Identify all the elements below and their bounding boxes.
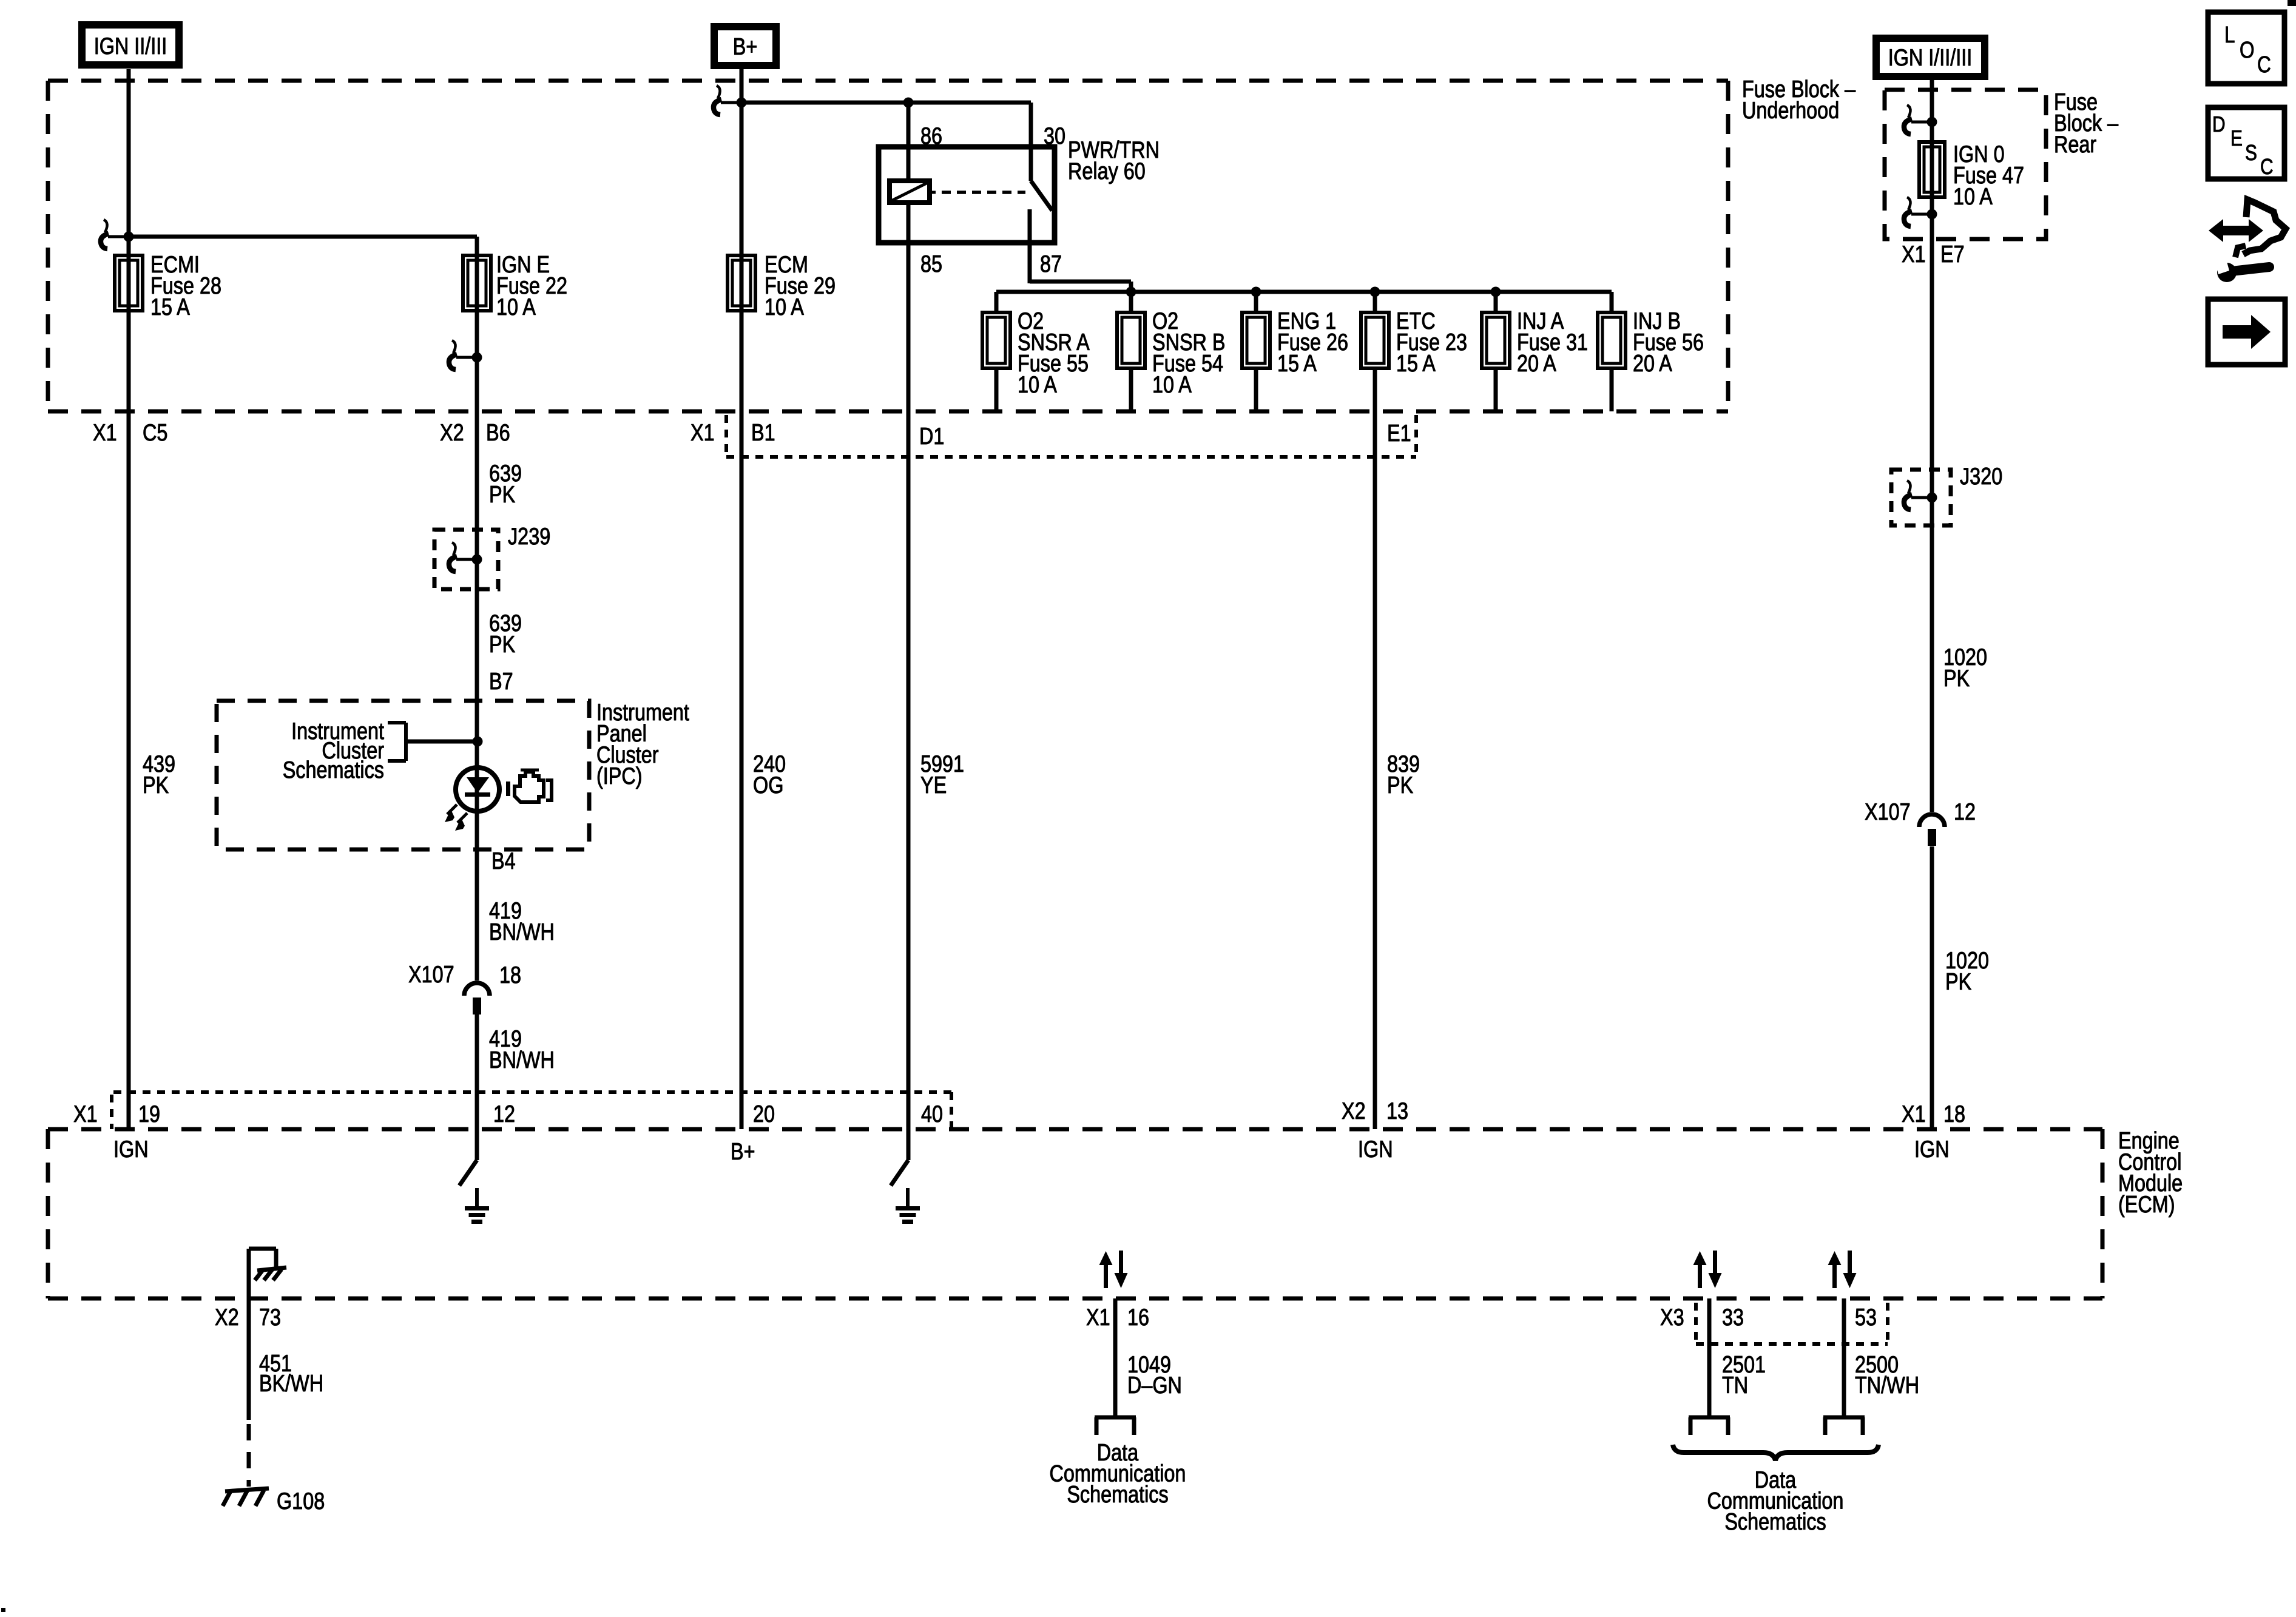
fuse ECMI Fuse 28 label [150, 252, 221, 320]
fuse feed bus from relay 87 [996, 290, 1612, 294]
label X107 18 [408, 962, 521, 988]
svg-text:C5: C5 [143, 420, 167, 446]
svg-text:X1: X1 [1902, 1101, 1926, 1127]
svg-text:PK: PK [143, 772, 169, 798]
label X107 12 right [1865, 799, 1976, 825]
svg-text:15 A: 15 A [150, 294, 190, 320]
fuse ETC [1361, 312, 1389, 368]
ECM pin 33 label [1722, 1305, 1744, 1331]
svg-text:(ECM): (ECM) [2118, 1192, 2175, 1218]
wire bus to O2 SNSR B fuse [1129, 292, 1133, 312]
svg-text:D1: D1 [919, 424, 944, 450]
off-page connector pin 16 [1095, 1417, 1136, 1435]
svg-text:30: 30 [1044, 123, 1065, 149]
wire O2 SNSR A fuse to border [994, 368, 999, 411]
svg-text:PK: PK [1943, 666, 1970, 692]
page mark bottom left [1, 1608, 5, 1612]
svg-text:86: 86 [920, 123, 942, 149]
wire link C5 to B6 horizontal [129, 235, 477, 239]
label G108 [277, 1488, 325, 1514]
ECM pin 53 data arrows [1828, 1251, 1857, 1288]
relay pin 86 label [920, 123, 942, 149]
connector cup junction below Fuse 22 [449, 340, 482, 370]
label X1 C5 at fuse block exit [93, 420, 167, 446]
power label box B+ [714, 27, 776, 66]
power label box IGN II/III [82, 25, 179, 65]
connector cup junction at B+ entry [714, 86, 747, 115]
svg-text:20: 20 [753, 1101, 775, 1127]
wire label 439 PK [143, 751, 175, 798]
svg-text:18: 18 [499, 962, 521, 988]
wire link B+ to relay pin 30 [741, 101, 1031, 105]
label X1 B1 at fuse block exit [690, 420, 775, 446]
svg-text:B7: B7 [489, 669, 513, 695]
wire bus to ETC fuse [1373, 292, 1377, 312]
svg-text:IGN: IGN [1914, 1136, 1950, 1163]
svg-text:Relay 60: Relay 60 [1068, 158, 1146, 184]
svg-text:C: C [2257, 52, 2271, 78]
ECM pin 40 ground [896, 1188, 920, 1224]
fuse ECM Fuse 29 label [765, 252, 836, 320]
icon service hand and wrench [2209, 200, 2286, 282]
svg-text:15 A: 15 A [1396, 351, 1436, 377]
svg-text:YE: YE [920, 772, 947, 798]
svg-text:12: 12 [493, 1101, 515, 1127]
label B7 pin [489, 669, 513, 695]
fuse block rear dashed box [1885, 90, 2046, 239]
relay pin 30 wire [1029, 103, 1033, 181]
ECM pin X2 73 label [215, 1305, 281, 1331]
svg-text:20 A: 20 A [1517, 351, 1556, 377]
ECM pin X1 18 label [1902, 1101, 1965, 1127]
svg-text:TN: TN [1722, 1372, 1748, 1399]
ECM pin 40 switch [891, 1129, 908, 1186]
ECM pin X2 13 label [1342, 1098, 1408, 1124]
svg-text:10 A: 10 A [496, 294, 536, 320]
wire 5991 YE from relay 85 to ECM pin 40 [907, 255, 911, 1129]
wire 1049 D-GN [1113, 1298, 1118, 1417]
svg-text:(IPC): (IPC) [596, 763, 643, 789]
fuse IGN 0 Fuse 47 [1919, 142, 1945, 197]
wire ENG 1 fuse to border [1254, 368, 1258, 411]
relay pin 85 wire [907, 203, 911, 255]
fuse block underhood border (dashed box) [48, 81, 1728, 411]
fuse INJ A label [1517, 308, 1588, 377]
label D1 at fuse block exit [919, 424, 944, 450]
svg-text:PK: PK [1945, 969, 1971, 995]
off-page connector pin 33 [1689, 1417, 1730, 1435]
svg-text:X2: X2 [440, 420, 464, 446]
wire INJ B fuse to border [1610, 368, 1614, 411]
instrument panel cluster label [596, 700, 689, 789]
junction dot at relay coil feed [903, 98, 914, 108]
svg-text:B6: B6 [486, 420, 510, 446]
wire label 639 PK lower [489, 610, 522, 658]
svg-text:16: 16 [1127, 1305, 1149, 1331]
svg-text:BN/WH: BN/WH [489, 919, 555, 945]
ECM pin 40 label [921, 1101, 943, 1127]
fuse O2 SNSR B [1117, 312, 1145, 368]
relay PWR/TRN Relay 60 box [879, 147, 1055, 243]
off-page connector pin 53 [1823, 1417, 1865, 1435]
wire 1020 PK from IGN I/II/III to ECM pin 18 [1930, 80, 1934, 1129]
svg-text:IGN: IGN [1358, 1136, 1393, 1163]
fuse IGN E Fuse 22 label [496, 252, 567, 320]
inline connector X107 pin 12 right [1919, 814, 1945, 846]
power label box IGN I/II/III [1876, 38, 1985, 76]
wire 439 PK vertical from IGN II/III to ECM pin 19 [127, 69, 131, 1129]
fuse INJ B [1598, 312, 1626, 368]
junction dot at INJ A tap [1491, 287, 1501, 297]
svg-text:B+: B+ [731, 1139, 755, 1165]
svg-text:X1: X1 [1086, 1305, 1110, 1331]
fuse ECM Fuse 29 [728, 255, 755, 311]
relay switch blade [1031, 181, 1052, 211]
svg-text:TN/WH: TN/WH [1855, 1372, 1919, 1399]
ECM pin 12 label [493, 1101, 515, 1127]
ECM pin 13 IGN label [1358, 1136, 1393, 1163]
fuse O2 SNSR A label [1018, 308, 1090, 398]
ECM connector X1 dotted notch [112, 1092, 951, 1129]
data communication schematics text left [1050, 1440, 1186, 1508]
svg-text:D–GN: D–GN [1127, 1372, 1182, 1399]
relay pin 85 label [920, 251, 942, 277]
svg-text:D: D [2212, 112, 2226, 137]
indicator LED circle [456, 768, 499, 811]
wire 2501 TN [1707, 1298, 1712, 1417]
svg-text:J239: J239 [508, 524, 550, 550]
icon box LOC [2208, 12, 2284, 84]
fuse O2 SNSR B label [1152, 308, 1226, 398]
svg-text:B+: B+ [733, 34, 758, 60]
svg-text:X2: X2 [215, 1305, 239, 1331]
wire label 639 PK upper [489, 461, 522, 508]
svg-text:85: 85 [920, 251, 942, 277]
ECM pin 20 B+ label [731, 1139, 755, 1165]
wire B+ vertical to ECM pin 20 [740, 69, 744, 1129]
fuse ENG 1 label [1277, 308, 1348, 377]
wire bus to INJ A fuse [1494, 292, 1498, 312]
svg-text:X1: X1 [690, 420, 715, 446]
svg-text:33: 33 [1722, 1305, 1744, 1331]
ECM internal chassis ground wire [249, 1249, 276, 1298]
wire label 1020 PK upper [1943, 644, 1987, 692]
ECM pin 53 label [1855, 1305, 1877, 1331]
svg-text:B1: B1 [751, 420, 775, 446]
check engine icon [506, 770, 552, 802]
label J320 [1960, 464, 2002, 490]
svg-text:PK: PK [1387, 772, 1413, 798]
svg-text:C: C [2260, 154, 2274, 179]
svg-text:E7: E7 [1940, 241, 1965, 268]
ECM pin 18 IGN label [1914, 1136, 1950, 1163]
svg-text:X3: X3 [1660, 1305, 1684, 1331]
ECM pin 16 data arrows [1099, 1251, 1128, 1288]
svg-text:20 A: 20 A [1633, 351, 1672, 377]
icon box arrow [2208, 299, 2285, 365]
instrument cluster schematics bracket [388, 723, 406, 761]
svg-text:E1: E1 [1387, 420, 1411, 447]
svg-text:BK/WH: BK/WH [259, 1371, 323, 1397]
LED light arrows [445, 805, 467, 831]
svg-text:10 A: 10 A [765, 294, 804, 320]
svg-text:X107: X107 [1865, 799, 1911, 825]
svg-text:10 A: 10 A [1953, 184, 1993, 210]
wire relay 87 to fuse bus [1030, 282, 1131, 292]
ECM pin 19 IGN label [113, 1136, 149, 1163]
label J239 [508, 524, 550, 550]
ECM connector X3 dotted box [1696, 1303, 1888, 1344]
svg-text:B4: B4 [491, 848, 516, 874]
svg-text:15 A: 15 A [1277, 351, 1317, 377]
svg-text:E: E [2230, 126, 2243, 150]
svg-text:L: L [2224, 22, 2235, 48]
svg-text:87: 87 [1040, 251, 1062, 277]
fuse INJ B label [1633, 308, 1704, 377]
fuse IGN E Fuse 22 [463, 255, 491, 311]
junction dot at IPC wire [473, 737, 483, 747]
svg-text:PK: PK [489, 482, 515, 508]
svg-text:X1: X1 [1902, 241, 1926, 268]
fuse O2 SNSR A [982, 312, 1010, 368]
wire 839 PK from ETC fuse to ECM pin 13 [1373, 368, 1377, 1129]
svg-text:Schematics: Schematics [283, 757, 384, 783]
svg-text:13: 13 [1386, 1098, 1408, 1124]
connector cup junction J239 [449, 542, 482, 572]
connector cup junction J320 [1904, 481, 1937, 510]
svg-text:73: 73 [259, 1305, 281, 1331]
svg-text:G108: G108 [277, 1488, 325, 1514]
wire label 451 BK/WH [259, 1351, 323, 1397]
svg-text:PK: PK [489, 632, 515, 658]
wire label 1020 PK lower [1945, 948, 1989, 995]
page mark top right [2288, 0, 2296, 6]
connector cup junction rear block exit [1904, 197, 1937, 226]
svg-text:X2: X2 [1342, 1098, 1366, 1124]
svg-text:Rear: Rear [2054, 132, 2096, 158]
relay pin 87 wire [1028, 209, 1032, 283]
svg-text:10 A: 10 A [1152, 372, 1192, 398]
relay coil [890, 181, 930, 203]
connector cup junction at C5 link [101, 220, 134, 249]
engine control module label [2118, 1128, 2183, 1218]
wire label 240 OG [753, 751, 786, 798]
wire label 5991 YE [920, 751, 964, 798]
fuse IGN 0 Fuse 47 label [1953, 141, 2024, 210]
svg-text:Underhood: Underhood [1742, 98, 1839, 124]
svg-text:X1: X1 [93, 420, 117, 446]
wire label 419 BN/WH lower [489, 1026, 555, 1073]
svg-text:J320: J320 [1960, 464, 2002, 490]
wire dashed to G108 [247, 1424, 251, 1487]
svg-text:OG: OG [753, 772, 783, 798]
fuse ETC label [1396, 308, 1467, 377]
label X2 B6 at fuse block exit [440, 420, 510, 446]
wire from bracket to B6 wire [406, 740, 478, 744]
svg-text:IGN I/II/III: IGN I/II/III [1888, 45, 1973, 71]
relay label [1068, 137, 1160, 184]
svg-text:Schematics: Schematics [1067, 1482, 1168, 1508]
fuse ENG 1 [1242, 312, 1270, 368]
svg-text:12: 12 [1954, 799, 1976, 825]
svg-text:IGN: IGN [113, 1136, 149, 1163]
fuse block underhood label [1742, 76, 1855, 124]
svg-text:BN/WH: BN/WH [489, 1047, 555, 1073]
wire label 1049 D-GN [1127, 1352, 1182, 1399]
svg-text:18: 18 [1943, 1101, 1965, 1127]
bus corner to INJ B fuse [1610, 292, 1614, 312]
svg-text:X107: X107 [408, 962, 454, 988]
ground G108 symbol [223, 1488, 269, 1506]
fuse INJ A [1482, 312, 1510, 368]
svg-text:S: S [2245, 140, 2257, 165]
wire IGN E branch vertical (B6) [475, 237, 479, 1129]
wire bus to ENG 1 fuse [1254, 292, 1258, 312]
relay coil to switch dashed link [930, 191, 1025, 194]
fuse block underhood connector X1 dotted box [726, 415, 1416, 457]
ECM pin X3 label [1660, 1305, 1684, 1331]
wire label 419 BN/WH upper [489, 898, 555, 945]
wire INJ A fuse to border [1494, 368, 1498, 411]
label X1 E7 at rear block exit [1902, 241, 1965, 268]
svg-text:O: O [2240, 38, 2255, 63]
brace under pins 33 and 53 [1673, 1445, 1879, 1460]
wire label 2501 TN [1722, 1352, 1766, 1399]
instrument cluster schematics reference text [283, 718, 384, 783]
ECM internal chassis ground symbol [255, 1268, 286, 1280]
ECM pin 20 label [753, 1101, 775, 1127]
svg-text:10 A: 10 A [1018, 372, 1057, 398]
svg-text:19: 19 [138, 1101, 160, 1127]
svg-text:Schematics: Schematics [1724, 1509, 1826, 1535]
junction dot at ENG 1 tap [1251, 287, 1261, 297]
connector cup junction rear block entry [1904, 105, 1937, 134]
wire label 839 PK [1387, 751, 1420, 798]
ECM pin 33 data arrows [1693, 1251, 1722, 1288]
svg-text:IGN II/III: IGN II/III [94, 33, 167, 59]
junction dot at ETC tap [1370, 287, 1380, 297]
icon box DESC [2208, 107, 2284, 179]
fuse ECMI Fuse 28 [115, 255, 143, 311]
wire 451 BK/WH [247, 1298, 251, 1420]
instrument panel cluster dashed box [217, 701, 589, 849]
ECM pin X1 19 label [73, 1101, 160, 1127]
splice J320 dashed box [1891, 470, 1951, 525]
splice J239 dashed box [434, 530, 498, 589]
engine control module dashed box [48, 1129, 2102, 1298]
relay pin 86 wire [907, 103, 911, 181]
svg-text:40: 40 [921, 1101, 943, 1127]
svg-text:53: 53 [1855, 1305, 1877, 1331]
ECM pin 12 switch [459, 1129, 477, 1186]
fuse block rear label [2054, 89, 2118, 158]
inline connector X107 pin 18 [464, 983, 490, 1014]
relay pin 30 label [1044, 123, 1065, 149]
svg-text:X1: X1 [73, 1101, 98, 1127]
junction dot at O2 SNSR B tap [1126, 287, 1136, 297]
wire 2500 TN/WH [1842, 1298, 1846, 1417]
ECM pin 12 ground [465, 1188, 489, 1224]
relay pin 87 label [1040, 251, 1062, 277]
ECM pin X1 16 label [1086, 1305, 1149, 1331]
data communication schematics text right [1707, 1467, 1844, 1535]
wire O2 SNSR B fuse to border [1129, 368, 1133, 411]
bus corner to O2 SNSR A fuse [994, 292, 999, 312]
label E1 at fuse block exit [1387, 420, 1411, 447]
label B4 pin [491, 848, 516, 874]
wire label 2500 TN/WH [1855, 1352, 1919, 1399]
